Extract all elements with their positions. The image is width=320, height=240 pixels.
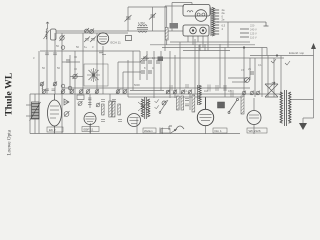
svg-text:Loewe Opta: Loewe Opta [7,129,13,155]
svg-text:5000: 5000 [134,83,140,87]
svg-text:Dm 1: Dm 1 [215,129,222,133]
svg-text:240 V: 240 V [250,27,257,31]
svg-text:0,1: 0,1 [258,63,262,67]
svg-text:220: 220 [250,24,255,28]
svg-text:0,1: 0,1 [120,87,124,91]
svg-text:6+: 6+ [84,45,87,49]
svg-text:1M: 1M [204,89,208,93]
svg-text:6,3: 6,3 [222,24,226,28]
svg-text:ECH 11: ECH 11 [111,41,122,45]
svg-text:EBF 11: EBF 11 [84,128,94,132]
svg-text:EK 2: EK 2 [49,128,56,132]
svg-text:125 V: 125 V [250,31,257,35]
svg-text:Wh 2126: Wh 2126 [249,129,261,133]
svg-text:Wellen: Wellen [144,129,153,133]
svg-text:Thule WL: Thule WL [4,72,15,116]
svg-text:0,5: 0,5 [228,89,232,93]
svg-text:0,1: 0,1 [184,89,188,93]
svg-text:110 V: 110 V [250,35,257,39]
svg-text:Erdentf. Lsp: Erdentf. Lsp [289,51,305,55]
svg-text:0,5: 0,5 [166,89,170,93]
svg-text:1,5M: 1,5M [138,21,145,25]
